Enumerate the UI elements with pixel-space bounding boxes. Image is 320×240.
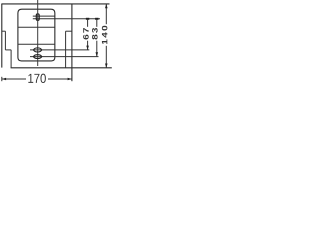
67 dimension line (87, 19, 89, 27)
fixture left edge (1, 4, 3, 68)
140 down arrow (105, 64, 108, 68)
83 dimension line (96, 19, 98, 27)
label 83 rotated (92, 28, 98, 40)
83 down arrow (96, 52, 99, 56)
67 reference line (5, 49, 11, 51)
label 140 rotated (102, 26, 108, 44)
ceiling line B (33, 18, 100, 20)
top screw slot capsule (36, 14, 39, 21)
bracket line A (33, 15, 55, 17)
left inner vertical (4, 31, 6, 50)
center line (37, 0, 39, 66)
170 left extension stub (1, 77, 3, 81)
170 left arrow (2, 78, 6, 81)
170 right arrow (68, 78, 72, 81)
left foot vertical (10, 50, 12, 68)
tick 83 top (95, 18, 98, 20)
eye slot 2 (34, 55, 42, 59)
eye slot 1 (34, 48, 42, 52)
83 reference line (30, 56, 99, 58)
tick 67 top (86, 18, 89, 20)
label 170 (28, 74, 46, 83)
fixture right edge with extension down to 170 dim (71, 4, 73, 81)
left inner ledge (2, 30, 6, 32)
label 67 rotated (83, 28, 89, 39)
canopy body rounded rect (18, 9, 55, 61)
right inner vertical (65, 31, 67, 68)
140 up arrow (105, 4, 108, 8)
170 dimension line right part (48, 78, 72, 80)
right inner ledge (66, 30, 72, 32)
canopy internal line 1 (18, 26, 55, 28)
fixture bottom reference line (140 bottom) (11, 67, 112, 69)
fixture top edge with extension to 140 dim (1, 3, 109, 5)
67 down arrow (86, 46, 89, 50)
140 dimension line (105, 4, 107, 24)
170 dimension line left part (2, 78, 26, 80)
canopy internal line 2 (18, 43, 55, 45)
